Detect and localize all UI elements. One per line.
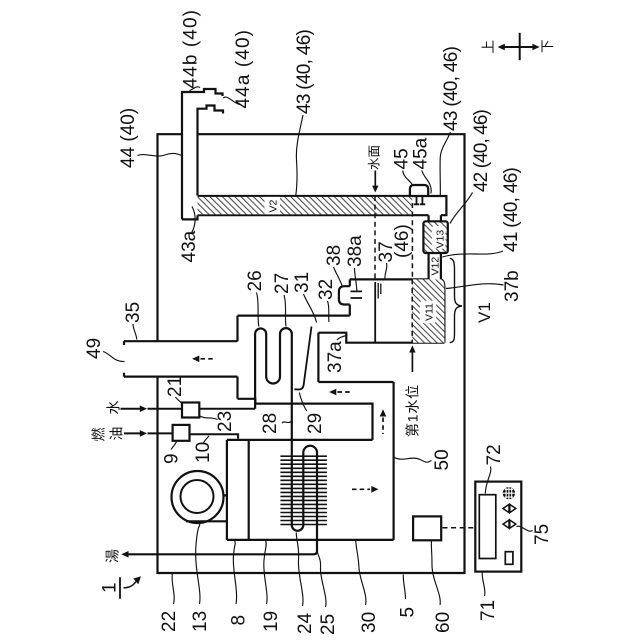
flow arrowhead box50 (371, 486, 378, 493)
valve neck V12-top (plate to V13) (429, 215, 441, 221)
power button (505, 552, 513, 565)
svg-text:1: 1 (100, 582, 121, 593)
first water level arrow (409, 345, 415, 352)
leader 44a (223, 97, 240, 104)
water surface arrow (372, 186, 378, 193)
inlet bump 38 (339, 286, 350, 304)
svg-text:31: 31 (292, 272, 313, 293)
flue duct top wall (238, 315, 350, 317)
hatched region V2 of plate 43 (198, 197, 413, 214)
leader 10 (204, 436, 209, 443)
svg-text:26: 26 (245, 270, 266, 291)
svg-text:下: 下 (540, 40, 555, 54)
svg-text:72: 72 (484, 444, 505, 465)
svg-text:25: 25 (318, 614, 339, 635)
svg-text:50: 50 (432, 449, 453, 470)
leader 29 (299, 393, 307, 411)
svg-text:8: 8 (228, 615, 249, 626)
svg-text:38: 38 (324, 245, 345, 266)
leader 60 (431, 541, 440, 605)
svg-text:75: 75 (532, 524, 553, 545)
svg-text:28: 28 (260, 413, 281, 434)
svg-text:71: 71 (478, 600, 499, 621)
box 50 bottom (227, 539, 394, 541)
flue flow arrowhead channel (329, 389, 336, 396)
svg-text:35: 35 (123, 302, 144, 323)
svg-text:油: 油 (108, 427, 124, 441)
leader 50 (394, 458, 431, 463)
burner plate 8 (248, 440, 250, 540)
chamber left wall (226, 440, 228, 540)
fan casing (186, 495, 227, 521)
svg-text:45: 45 (391, 148, 412, 169)
indicator globe (503, 487, 515, 499)
leader 28 (282, 422, 291, 424)
leader 43 right (440, 132, 450, 196)
svg-text:10: 10 (193, 442, 214, 463)
water pump box 21 (182, 403, 199, 418)
leader 21 (176, 397, 182, 404)
leader 23 (200, 416, 218, 420)
leader 41 (442, 251, 503, 257)
svg-text:9: 9 (161, 453, 182, 464)
leader 38 (334, 267, 343, 286)
svg-text:燃: 燃 (90, 428, 106, 442)
tank bottom (318, 333, 444, 343)
label window V2 (265, 197, 281, 214)
svg-text:5: 5 (397, 607, 418, 618)
svg-text:上: 上 (481, 40, 496, 54)
duct bottom wall with step (238, 399, 373, 440)
leader 19 (264, 541, 267, 604)
burner fan 13 outer (172, 471, 224, 523)
leader 26 (257, 293, 259, 327)
leader 8 (233, 541, 236, 604)
box 50 right wall (riser) (393, 382, 395, 540)
svg-text:43 (40, 46): 43 (40, 46) (294, 29, 315, 114)
leader 9 (171, 441, 177, 449)
fuel inlet arrowhead (140, 430, 147, 437)
svg-text:22: 22 (159, 611, 180, 632)
water level line in tank (374, 282, 376, 343)
figure number 1 underline and arrow (119, 577, 121, 599)
leader 32 (328, 301, 330, 322)
valve V13 hatched body (423, 221, 447, 253)
leader 31 (304, 294, 317, 323)
tank 37 left wall (349, 279, 351, 315)
leader 75 (517, 526, 533, 531)
svg-text:(46): (46) (392, 224, 413, 258)
leader 42 (450, 193, 473, 224)
boundary 5 (housing outline) (158, 134, 465, 573)
slanted baffle 29 (294, 327, 311, 390)
svg-text:湯: 湯 (105, 549, 121, 563)
under-tank channel bottom wall (318, 381, 393, 383)
svg-text:32: 32 (316, 279, 337, 300)
pipe opening 38a (351, 291, 363, 298)
svg-text:37a: 37a (325, 341, 346, 373)
leader 35 (133, 324, 137, 340)
controller panel 71 (475, 482, 521, 572)
tank right wall with rounded step 37b (441, 279, 445, 342)
flow arrowhead riser (380, 409, 387, 416)
control box 60 (413, 516, 441, 540)
valve neck V12 (429, 253, 441, 279)
hatched water zone V11 (412, 279, 444, 342)
svg-text:V13: V13 (434, 230, 446, 249)
leader 5 (403, 575, 405, 600)
svg-text:42 (40, 46): 42 (40, 46) (471, 109, 492, 192)
compass up/down (504, 33, 534, 60)
grouping brace V1 (450, 258, 462, 342)
burner fan inner (181, 480, 214, 513)
leader 22 (172, 574, 174, 604)
duct left wall (exhaust opening) (236, 316, 238, 399)
svg-text:27: 27 (272, 273, 293, 294)
buttons 75 (503, 504, 516, 528)
water inlet arrowhead (140, 405, 147, 412)
svg-text:19: 19 (261, 611, 282, 632)
heating coil 27 and finned tube 24 (127, 328, 318, 554)
display 72 (479, 495, 496, 559)
svg-text:21: 21 (165, 376, 186, 397)
svg-text:V1: V1 (475, 302, 494, 323)
water inlet pipe to coil (148, 408, 256, 410)
leader 71 (482, 573, 485, 597)
leader 49 (103, 352, 125, 362)
svg-text:44a (40): 44a (40) (233, 29, 254, 109)
leader 37 (385, 263, 387, 279)
svg-text:38a: 38a (345, 235, 366, 267)
dashed hatch boundary at plate 43 (411, 203, 413, 279)
tank 37 top edge (350, 278, 429, 280)
svg-text:水面: 水面 (368, 145, 382, 170)
pipe 44 foot 43a (182, 215, 198, 219)
svg-text:44b (40): 44b (40) (181, 9, 202, 89)
flue flow arrowhead 49 (192, 356, 199, 363)
water surface dashed line (374, 196, 376, 279)
leader 45a (422, 171, 431, 194)
leader 27 (284, 295, 286, 327)
fuel pump box 9 (173, 425, 190, 441)
downcomer left wall (317, 333, 319, 382)
reservoir plate 43 outline (198, 196, 447, 215)
svg-text:45a: 45a (410, 137, 431, 169)
svg-text:V11: V11 (423, 303, 435, 321)
leader 13 (196, 522, 200, 604)
svg-text:24: 24 (295, 612, 316, 634)
svg-text:30: 30 (359, 612, 380, 633)
leader 38a (355, 268, 357, 291)
leader 43a (192, 207, 196, 234)
svg-text:13: 13 (190, 611, 211, 632)
leader 25 (317, 549, 326, 607)
pipe 44 outer wall (182, 89, 223, 219)
leader 30 (356, 541, 366, 605)
dashed flow line 49 (201, 358, 217, 360)
dashed link box60 to panel 71 (443, 527, 475, 529)
dashed flow line channel (338, 391, 353, 393)
leader 44 (138, 153, 182, 156)
svg-text:29: 29 (305, 413, 326, 434)
dashed flow line riser (382, 418, 384, 435)
leader 72 (485, 467, 491, 494)
svg-text:V2: V2 (267, 199, 279, 212)
hot water outlet arrowhead (121, 551, 128, 558)
svg-text:49: 49 (84, 338, 105, 359)
valve seat ticks 45a (414, 197, 425, 205)
leader 37a (337, 335, 348, 340)
first water level arrow stem (411, 352, 413, 373)
dashed flow line box50 (352, 488, 370, 490)
dashed V11 left boundary (411, 279, 413, 342)
pipe 44 inner wall (44a steps) (198, 106, 224, 196)
svg-text:23: 23 (215, 411, 236, 432)
leader 44b (190, 87, 201, 91)
leader 45 (403, 171, 413, 185)
svg-text:60: 60 (433, 612, 454, 633)
svg-text:44 (40): 44 (40) (118, 108, 139, 168)
svg-text:V12: V12 (430, 257, 442, 276)
water surface arrow stem (374, 171, 376, 187)
leader 37b (446, 284, 504, 289)
svg-text:37b: 37b (502, 270, 523, 302)
combustion chamber 19 top (227, 439, 373, 441)
svg-text:43a: 43a (179, 230, 200, 262)
exhaust pipe 49 (124, 341, 238, 376)
svg-text:水: 水 (106, 401, 122, 415)
svg-text:第1水位: 第1水位 (405, 384, 421, 437)
svg-text:41 (40, 46): 41 (40, 46) (501, 167, 522, 252)
fuel pipe 10 (124, 433, 238, 438)
float valve 45 dome (410, 185, 428, 196)
fins 25 (280, 456, 327, 524)
svg-text:43 (40, 46): 43 (40, 46) (441, 46, 462, 131)
leader 24 (296, 533, 303, 607)
leader 43 left (296, 115, 303, 196)
